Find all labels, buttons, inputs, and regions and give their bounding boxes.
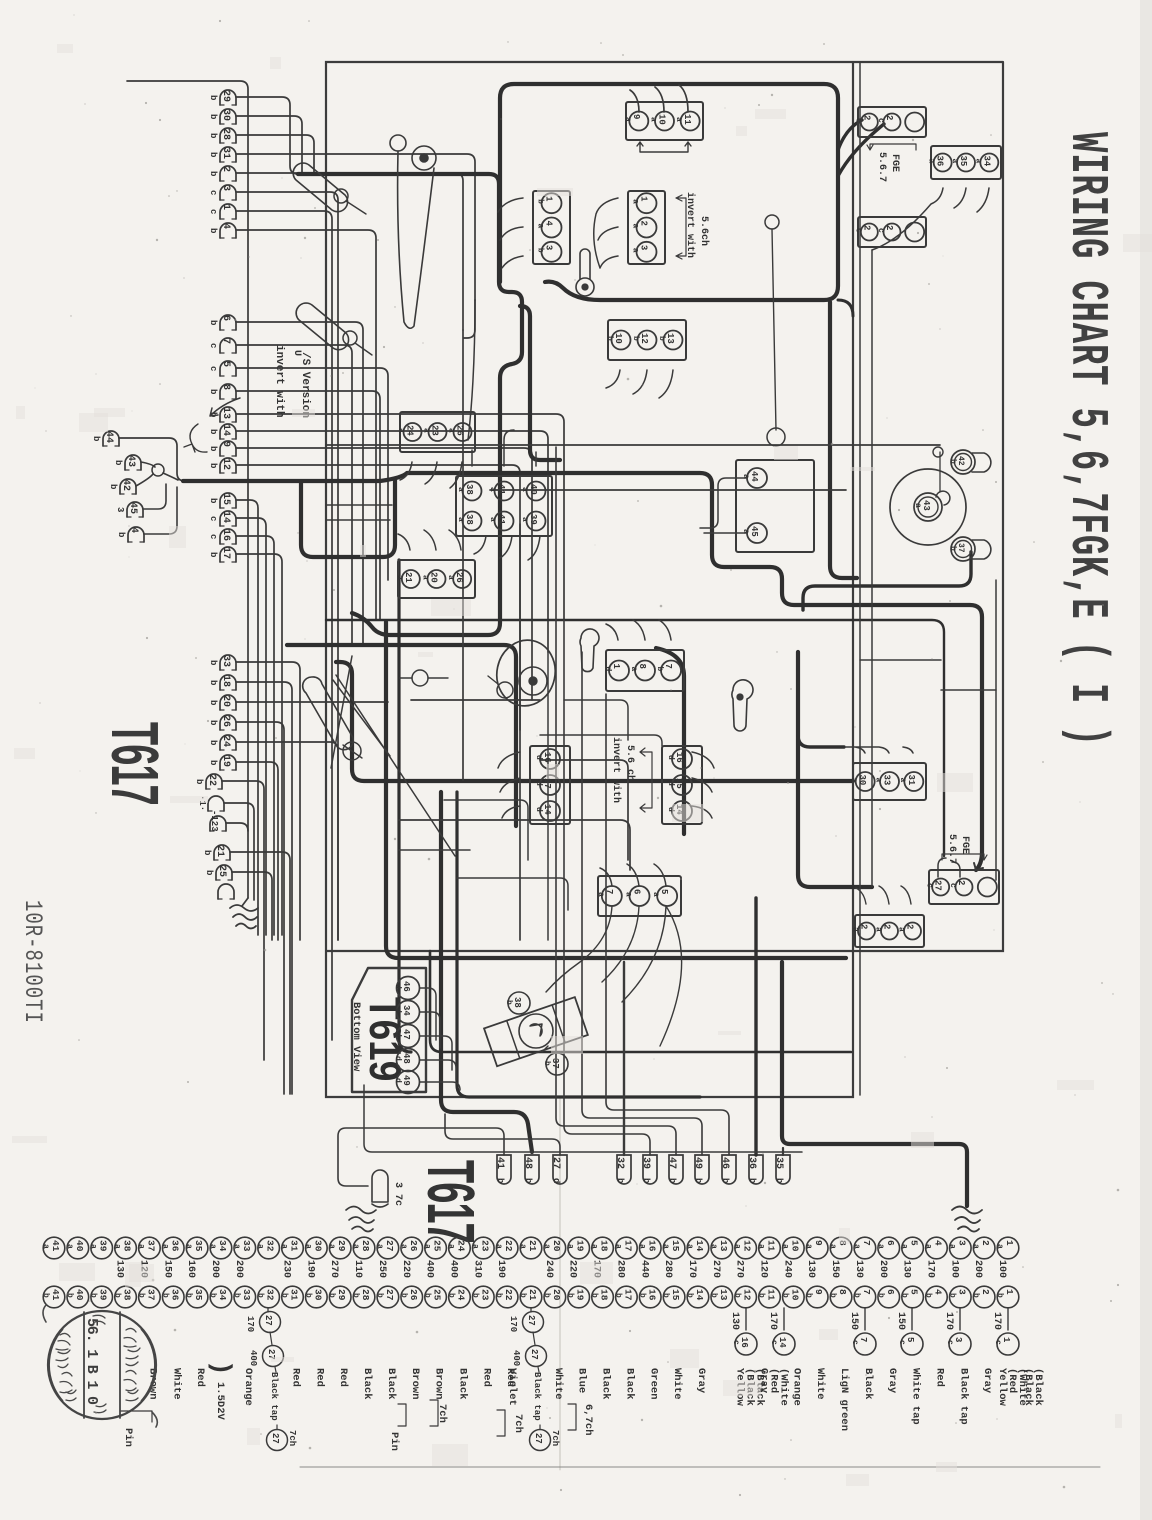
svg-text:b: b xyxy=(494,1293,503,1298)
svg-text:a: a xyxy=(160,1244,169,1249)
svg-text:c: c xyxy=(731,1340,740,1345)
svg-text:a: a xyxy=(923,1244,932,1249)
svg-text:220: 220 xyxy=(400,1260,411,1278)
lug dot A xyxy=(334,189,348,203)
pill terminal 49b xyxy=(695,1155,709,1184)
terminal 13b xyxy=(220,407,236,422)
svg-text:30: 30 xyxy=(312,1240,323,1252)
svg-text:a: a xyxy=(542,1244,551,1249)
terminal 1c xyxy=(220,204,236,219)
row-b terminal 32b xyxy=(258,1286,280,1308)
wires block9 xyxy=(472,430,536,466)
svg-text:a: a xyxy=(421,575,430,580)
svg-text:32: 32 xyxy=(265,1289,276,1301)
svg-text:41: 41 xyxy=(50,1240,61,1252)
svg-text:b: b xyxy=(709,1293,718,1298)
svg-text:b: b xyxy=(566,1293,575,1298)
row-b terminal 36b xyxy=(162,1286,184,1308)
row-a terminal 15a xyxy=(663,1237,685,1259)
svg-text:b: b xyxy=(208,552,218,557)
wire vertical x548 xyxy=(547,652,549,940)
svg-text:(White: (White xyxy=(778,1368,790,1406)
terminal 29b xyxy=(220,90,236,105)
block 16d,15d,14d xyxy=(662,746,702,824)
svg-text:27: 27 xyxy=(526,1315,536,1326)
svg-text:160: 160 xyxy=(185,1260,196,1278)
row-a terminal 41a xyxy=(43,1237,65,1259)
svg-text:3: 3 xyxy=(956,1240,967,1246)
svg-text:Black: Black xyxy=(361,1368,373,1400)
wire thick B20 curl xyxy=(838,300,853,316)
wire y840 mid xyxy=(399,820,630,870)
terminal 20b xyxy=(220,695,236,710)
squiggle left ground xyxy=(346,1207,376,1232)
egg oval capacitor xyxy=(491,635,561,712)
svg-text:170: 170 xyxy=(767,1312,778,1330)
wires 9a10a11a up xyxy=(630,85,688,112)
ground squiggle right xyxy=(952,1207,982,1232)
svg-text:10: 10 xyxy=(789,1289,800,1301)
svg-text:b: b xyxy=(116,532,126,537)
pill terminal 27d xyxy=(553,1155,567,1184)
svg-text:9: 9 xyxy=(813,1240,824,1246)
terminal n1 xyxy=(208,796,224,811)
row-b terminal 17b xyxy=(616,1286,638,1308)
svg-text:a: a xyxy=(184,1244,193,1249)
svg-text:33: 33 xyxy=(220,655,231,667)
svg-text:13: 13 xyxy=(718,1240,729,1252)
svg-text:a: a xyxy=(456,517,465,522)
svg-text:14: 14 xyxy=(220,424,231,436)
svg-text:a: a xyxy=(303,1244,312,1249)
svg-text:a: a xyxy=(661,1244,670,1249)
wire thick y662-y781 xyxy=(336,662,853,781)
svg-text:a: a xyxy=(828,1244,837,1249)
svg-text:45: 45 xyxy=(127,502,138,514)
svg-text:b: b xyxy=(113,1293,122,1298)
row-b terminal 14b xyxy=(687,1286,709,1308)
block 16d,17d,14d xyxy=(530,746,570,824)
svg-text:a: a xyxy=(89,1244,98,1249)
svg-text:15: 15 xyxy=(220,493,231,505)
svg-text:White: White xyxy=(170,1368,182,1400)
label Pin mid xyxy=(398,1404,406,1426)
row-a terminal 13a xyxy=(711,1237,733,1259)
svg-text:100: 100 xyxy=(996,1260,1007,1278)
svg-text:1: 1 xyxy=(220,204,231,210)
svg-text:19: 19 xyxy=(220,755,231,767)
terminal 7c xyxy=(220,338,236,353)
svg-text:b: b xyxy=(208,114,218,119)
svg-text:b: b xyxy=(948,546,957,551)
wire thick x386 xyxy=(386,622,846,958)
row-a terminal 31a xyxy=(282,1237,304,1259)
svg-text:170: 170 xyxy=(943,1312,954,1330)
svg-text:200: 200 xyxy=(972,1260,983,1278)
wire mid extra xyxy=(564,700,628,740)
svg-text:d: d xyxy=(603,667,612,672)
svg-text:190: 190 xyxy=(304,1260,315,1278)
svg-text:24: 24 xyxy=(455,1240,466,1252)
wires 36a35a34a xyxy=(872,188,989,250)
svg-text:240: 240 xyxy=(781,1260,792,1278)
svg-text:b: b xyxy=(615,1178,625,1183)
svg-text:T617: T617 xyxy=(97,722,171,805)
terminal 46c xyxy=(128,527,144,542)
row-b terminal 22b xyxy=(496,1286,518,1308)
svg-text:270: 270 xyxy=(328,1260,339,1278)
svg-text:a: a xyxy=(113,1244,122,1249)
row-a terminal 2a xyxy=(973,1237,995,1259)
wires block18 xyxy=(846,747,913,753)
svg-text:a: a xyxy=(733,1244,742,1249)
svg-text:a: a xyxy=(898,778,907,783)
svg-text:29: 29 xyxy=(220,90,231,102)
svg-text:200: 200 xyxy=(209,1260,220,1278)
svg-text:b: b xyxy=(91,436,101,441)
terminal 26b xyxy=(220,715,236,730)
svg-text:22: 22 xyxy=(206,774,217,786)
svg-text:b: b xyxy=(605,336,614,341)
svg-text:4: 4 xyxy=(932,1289,943,1295)
svg-text:d: d xyxy=(534,755,543,760)
svg-text:4: 4 xyxy=(932,1240,943,1246)
row-b terminal 30b xyxy=(306,1286,328,1308)
label Blue 6,7ch bracket xyxy=(568,1404,576,1430)
svg-text:31: 31 xyxy=(289,1240,300,1252)
wires group6 xyxy=(222,781,264,1060)
svg-text:20: 20 xyxy=(551,1240,562,1252)
svg-text:36: 36 xyxy=(169,1289,180,1301)
svg-text:c: c xyxy=(993,1340,1002,1345)
svg-text:b: b xyxy=(208,660,218,665)
wire thick B18 feed xyxy=(798,735,844,747)
svg-text:170: 170 xyxy=(924,1260,935,1278)
terminal 17b xyxy=(220,547,236,562)
svg-text:b: b xyxy=(631,336,640,341)
svg-text:c: c xyxy=(850,1340,859,1345)
svg-text:b: b xyxy=(804,1293,813,1298)
row-a terminal 34a xyxy=(210,1237,232,1259)
svg-text:/S Version: /S Version xyxy=(299,352,311,418)
wires block8 xyxy=(400,462,462,488)
svg-text:16: 16 xyxy=(220,529,231,541)
row-a terminal 38a xyxy=(115,1237,137,1259)
svg-text:a: a xyxy=(208,1244,217,1249)
svg-text:b: b xyxy=(399,1293,408,1298)
row-b terminal 13b xyxy=(711,1286,733,1308)
row-b terminal 7b xyxy=(854,1286,876,1308)
wires pills up xyxy=(338,1128,504,1186)
svg-text:Black: Black xyxy=(385,1368,397,1400)
terminal 25b xyxy=(216,865,232,880)
svg-text:11: 11 xyxy=(766,1240,777,1252)
svg-text:220: 220 xyxy=(567,1260,578,1278)
svg-text:a: a xyxy=(351,1244,360,1249)
svg-text:7ch: 7ch xyxy=(287,1430,297,1446)
date stamp circle xyxy=(48,1311,156,1419)
svg-text:5.6.7: 5.6.7 xyxy=(876,152,887,182)
svg-text:b: b xyxy=(89,1293,98,1298)
svg-text:32: 32 xyxy=(614,1157,625,1169)
svg-text:15: 15 xyxy=(670,1240,681,1252)
svg-text:d: d xyxy=(393,1078,402,1083)
svg-text:b: b xyxy=(208,320,218,325)
svg-text:(Black: (Black xyxy=(1032,1368,1044,1406)
diagonal wires xyxy=(333,680,390,756)
svg-text:): ) xyxy=(206,1360,236,1376)
wires block17 xyxy=(692,752,714,818)
svg-text:Red: Red xyxy=(313,1368,325,1387)
row-b terminal 35b xyxy=(186,1286,208,1308)
svg-text:b: b xyxy=(971,1293,980,1298)
row-a terminal 25a xyxy=(425,1237,447,1259)
svg-text:a: a xyxy=(709,1244,718,1249)
row-a terminal 17a xyxy=(616,1237,638,1259)
svg-text:a: a xyxy=(852,1244,861,1249)
terminal 31b xyxy=(220,147,236,162)
svg-text:b: b xyxy=(208,1293,217,1298)
svg-text:Gray: Gray xyxy=(981,1368,993,1394)
svg-text:27: 27 xyxy=(533,1433,543,1444)
ground capsule 37c xyxy=(372,1170,388,1207)
svg-text:a: a xyxy=(631,224,640,229)
svg-text:19: 19 xyxy=(575,1289,586,1301)
svg-text:Black: Black xyxy=(862,1368,874,1400)
wire y800 xyxy=(444,800,528,860)
wires 1a2a3a xyxy=(594,198,618,268)
wires group3 xyxy=(236,414,564,620)
svg-text:b: b xyxy=(757,1293,766,1298)
svg-text:Gray: Gray xyxy=(695,1368,707,1394)
svg-text:c: c xyxy=(769,1340,778,1345)
wire bus y490 xyxy=(490,489,846,491)
svg-text:T617: T617 xyxy=(413,1160,487,1243)
svg-text:7: 7 xyxy=(861,1240,872,1246)
pill terminal 48b xyxy=(525,1155,539,1184)
svg-text:56. 1 B 1 0: 56. 1 B 1 0 xyxy=(83,1318,100,1405)
block 44a 45a xyxy=(736,460,814,552)
svg-text:170: 170 xyxy=(245,1316,255,1332)
svg-text:a: a xyxy=(375,1244,384,1249)
terminal 42b xyxy=(120,479,136,494)
wire thick x399 xyxy=(399,560,411,1052)
block 36a,35a,34a xyxy=(931,146,1001,179)
terminal 30b xyxy=(220,109,236,124)
row-a terminal 11a xyxy=(759,1237,781,1259)
link oval B xyxy=(296,303,348,350)
svg-text:130: 130 xyxy=(729,1312,740,1330)
row-a terminal 16a xyxy=(639,1237,661,1259)
wire y520 xyxy=(326,519,390,521)
terminal 8b xyxy=(220,384,236,399)
svg-text:18: 18 xyxy=(599,1289,610,1301)
svg-text:6: 6 xyxy=(885,1289,896,1295)
svg-text:b: b xyxy=(208,133,218,138)
svg-text:d: d xyxy=(534,807,543,812)
svg-text:23: 23 xyxy=(479,1289,490,1301)
row-b terminal 39b xyxy=(91,1286,113,1308)
svg-text:31: 31 xyxy=(220,147,231,159)
svg-text:14: 14 xyxy=(694,1240,705,1252)
pill terminal 35b xyxy=(776,1155,790,1184)
svg-text:b: b xyxy=(108,484,118,489)
hanger 7c xyxy=(864,1308,866,1330)
wire thick mid loop xyxy=(183,473,982,870)
svg-text:b: b xyxy=(208,463,218,468)
svg-text:b: b xyxy=(523,1178,533,1183)
svg-text:5: 5 xyxy=(909,1240,920,1246)
svg-text:Gray: Gray xyxy=(886,1368,898,1394)
svg-text:a: a xyxy=(590,1244,599,1249)
svg-text:White tap: White tap xyxy=(910,1368,922,1425)
row-b terminal 11b xyxy=(759,1286,781,1308)
svg-text:5: 5 xyxy=(220,361,231,367)
svg-text:a: a xyxy=(446,575,455,580)
svg-text:20: 20 xyxy=(220,695,231,707)
svg-text:b: b xyxy=(995,1293,1004,1298)
svg-text:c: c xyxy=(208,343,218,348)
wire y700 xyxy=(411,699,540,701)
svg-text:2: 2 xyxy=(220,166,231,172)
svg-text:a: a xyxy=(422,428,431,433)
pill terminal 46b xyxy=(722,1155,736,1184)
svg-text:b: b xyxy=(208,446,218,451)
svg-text:a: a xyxy=(851,927,860,932)
terminal 14b xyxy=(220,424,236,439)
block 24a,23a,26a xyxy=(400,412,475,452)
block 21a,20a,26a xyxy=(398,560,475,598)
svg-text:37: 37 xyxy=(145,1289,156,1301)
svg-text:b: b xyxy=(136,1293,145,1298)
svg-text:a: a xyxy=(423,1244,432,1249)
svg-text:a: a xyxy=(874,778,883,783)
row-a terminal 19a xyxy=(568,1237,590,1259)
svg-text:b: b xyxy=(208,760,218,765)
svg-text:b: b xyxy=(518,1293,527,1298)
chassis outline main rect xyxy=(326,62,1003,1097)
svg-text:a: a xyxy=(780,1244,789,1249)
svg-text:130: 130 xyxy=(114,1260,125,1278)
svg-text:Black tap: Black tap xyxy=(269,1372,279,1421)
transformer diagonal xyxy=(484,997,588,1066)
svg-text:1.5D2V: 1.5D2V xyxy=(214,1382,226,1421)
svg-text:d: d xyxy=(393,1032,402,1037)
wire right col extra xyxy=(860,660,996,690)
row-b terminal 28b xyxy=(353,1286,375,1308)
row-a terminal 33a xyxy=(234,1237,256,1259)
terminal 9b xyxy=(220,441,236,456)
svg-text:b: b xyxy=(641,1178,651,1183)
svg-text:a: a xyxy=(470,1244,479,1249)
svg-text:7: 7 xyxy=(861,1289,872,1295)
svg-text:Red: Red xyxy=(290,1368,302,1387)
terminal 3c xyxy=(220,185,236,200)
terminal 43b xyxy=(125,455,141,470)
svg-text:a: a xyxy=(950,159,959,164)
svg-text:21: 21 xyxy=(527,1240,538,1252)
terminal blank xyxy=(218,884,234,899)
terminal 4b xyxy=(220,223,236,238)
svg-text:c: c xyxy=(853,118,862,123)
svg-text:200: 200 xyxy=(233,1260,244,1278)
svg-text:170: 170 xyxy=(686,1260,697,1278)
wire top extra1 xyxy=(468,300,475,440)
svg-text:a: a xyxy=(631,199,640,204)
svg-text:12: 12 xyxy=(220,458,231,470)
wire thick x830 xyxy=(830,302,857,578)
block 10b,12b,13b xyxy=(608,320,686,360)
bracket 9a-11a xyxy=(637,142,691,152)
terminal 5c xyxy=(220,361,236,376)
svg-text:26: 26 xyxy=(408,1240,419,1252)
hanger 1c xyxy=(1007,1308,1009,1330)
svg-text:b: b xyxy=(667,1178,677,1183)
svg-text:a: a xyxy=(637,1244,646,1249)
svg-text:b: b xyxy=(613,1293,622,1298)
svg-text:b: b xyxy=(590,1293,599,1298)
svg-text:150: 150 xyxy=(829,1260,840,1278)
svg-text:5.6 ch: 5.6 ch xyxy=(624,745,636,781)
svg-text:8: 8 xyxy=(220,384,231,390)
svg-text:b: b xyxy=(204,870,214,875)
svg-text:b: b xyxy=(733,1293,742,1298)
speckles xyxy=(377,239,379,241)
keyhole lug B xyxy=(580,629,599,672)
row-a terminal 26a xyxy=(401,1237,423,1259)
row-b terminal 4b xyxy=(926,1286,948,1308)
svg-text:Black: Black xyxy=(600,1368,612,1400)
svg-text:b: b xyxy=(828,1293,837,1298)
svg-text:a: a xyxy=(395,575,404,580)
svg-text:a: a xyxy=(674,117,683,122)
svg-text:1: 1 xyxy=(1004,1240,1015,1246)
svg-text:a: a xyxy=(947,1244,956,1249)
svg-text:280: 280 xyxy=(662,1260,673,1278)
wire thick bottom bundle A xyxy=(441,792,532,1152)
svg-text:c: c xyxy=(208,516,218,521)
terminal 14c xyxy=(220,511,236,526)
wires block16 xyxy=(498,752,520,818)
wires T619 pins xyxy=(420,988,436,1040)
svg-text:b: b xyxy=(657,336,666,341)
terminal 21b xyxy=(214,845,230,860)
svg-text:9: 9 xyxy=(813,1289,824,1295)
svg-text:21: 21 xyxy=(527,1289,538,1301)
svg-text:280: 280 xyxy=(614,1260,625,1278)
svg-text:a: a xyxy=(757,1244,766,1249)
row-a terminal 22a xyxy=(496,1237,518,1259)
row-a terminal 12a xyxy=(735,1237,757,1259)
terminal 24b xyxy=(220,735,236,750)
oval link mid xyxy=(303,677,354,750)
svg-text:5: 5 xyxy=(909,1289,920,1295)
svg-text:a: a xyxy=(520,487,529,492)
svg-text:a: a xyxy=(447,428,456,433)
row-a terminal 20a xyxy=(544,1237,566,1259)
svg-text:a: a xyxy=(488,487,497,492)
svg-text:110: 110 xyxy=(352,1260,363,1278)
svg-text:a: a xyxy=(927,159,936,164)
wire ground link xyxy=(364,1085,802,1152)
terminal 2b xyxy=(220,166,236,181)
row-b terminal 25b xyxy=(425,1286,447,1308)
svg-text:100: 100 xyxy=(948,1260,959,1278)
svg-text:Red: Red xyxy=(194,1368,206,1387)
svg-text:b: b xyxy=(470,1293,479,1298)
svg-text:a: a xyxy=(518,1244,527,1249)
svg-text:b: b xyxy=(232,1293,241,1298)
